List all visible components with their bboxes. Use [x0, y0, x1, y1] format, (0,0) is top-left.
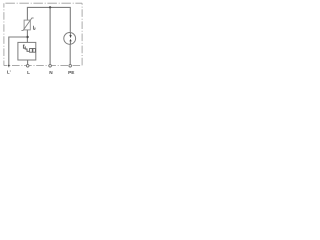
enclosure dashed border top [4, 2, 82, 4]
box U1 (triggered spark gap unit) [18, 42, 36, 60]
node: top rail junction [49, 6, 51, 8]
enclosure dashed border bottom [4, 65, 82, 67]
varistor RV1 body [24, 20, 30, 30]
wire: N branch [49, 7, 51, 67]
wire: top rail L-branch to PE-branch [27, 7, 70, 32]
node: L' tap junction [26, 36, 28, 38]
terminal PE [69, 65, 72, 68]
F1 lower electrode wire [69, 41, 71, 44]
wire: varistor to junction [26, 30, 28, 43]
terminal N [49, 65, 52, 68]
wire: box to L terminal [27, 60, 29, 67]
enclosure dashed border right [81, 3, 83, 65]
svg-text:PE: PE [68, 70, 74, 75]
F1 lower electrode arrow [69, 39, 71, 42]
U1 trigger stroke left [23, 45, 25, 48]
F1 upper electrode arrow [69, 35, 71, 38]
varistor RV1 diagonal [21, 18, 33, 30]
U1 electrode box 2 [33, 49, 36, 53]
svg-text:L: L [27, 70, 30, 75]
U1 trigger step [25, 46, 29, 51]
wire: circle to PE terminal [69, 44, 71, 67]
F1 upper electrode wire [69, 33, 71, 36]
varistor U label [34, 26, 36, 30]
spark gap F1 circle [64, 33, 76, 45]
terminal L' [8, 65, 10, 67]
wire: junction to L' terminal [9, 37, 28, 67]
U1 electrode box 1 [30, 49, 33, 53]
terminal L [26, 65, 29, 68]
svg-text:L': L' [7, 70, 11, 75]
enclosure dashed border left [3, 3, 5, 65]
svg-text:N: N [49, 70, 53, 75]
